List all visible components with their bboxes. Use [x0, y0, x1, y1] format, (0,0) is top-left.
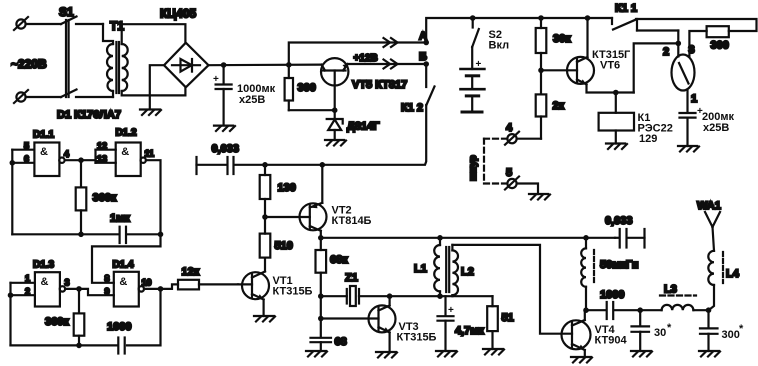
- label 30*: [654, 322, 672, 339]
- quartz Z1: [321, 286, 390, 306]
- svg-text:КТ315Б: КТ315Б: [397, 332, 437, 344]
- transistor VT4 KT904: [562, 310, 591, 357]
- terminal bottom mains: [14, 90, 28, 103]
- capacitor 1mk: [120, 227, 161, 243]
- ground: [699, 351, 720, 357]
- svg-text:2: 2: [25, 287, 30, 297]
- svg-text:12: 12: [97, 141, 107, 151]
- battery GB: [461, 47, 485, 112]
- ground: [325, 140, 346, 146]
- svg-text:D1.4: D1.4: [113, 260, 135, 271]
- capacitor 1000 MV2: [11, 338, 125, 354]
- svg-text:360к: 360к: [45, 316, 69, 328]
- svg-text:КТ315Б: КТ315Б: [273, 286, 313, 298]
- ground: [376, 352, 397, 358]
- zener VD D814G: [327, 110, 343, 140]
- svg-text:&: &: [121, 146, 129, 158]
- node A: [423, 40, 429, 46]
- label 200mk x25V: [702, 111, 734, 134]
- wire: [390, 295, 493, 297]
- label K1 RES22 129: [638, 112, 673, 145]
- svg-text:шнур: шнур: [468, 155, 479, 181]
- wire: [122, 87, 186, 95]
- capacitor 300* trimmer: [700, 310, 718, 351]
- node junction: [470, 15, 476, 21]
- resistor 68k: [316, 238, 327, 296]
- wire pin 3: [689, 31, 706, 57]
- transistor VT6 KT315G: [541, 18, 634, 93]
- wire to terminal 4: [517, 138, 541, 140]
- node junction: [583, 235, 589, 241]
- svg-text:11: 11: [145, 149, 155, 159]
- wire: [320, 296, 322, 337]
- label VT4 KT904: [595, 324, 628, 347]
- node junction: [262, 162, 268, 168]
- svg-text:2к: 2к: [553, 100, 565, 112]
- transistor VT2 KT814B: [265, 165, 327, 238]
- svg-text:1000: 1000: [600, 289, 624, 301]
- svg-text:L3: L3: [664, 284, 677, 296]
- switch S1 pole a: [61, 17, 103, 25]
- transistor VT3 KT315B: [321, 296, 396, 352]
- wire top rail: [426, 18, 612, 43]
- cord dashed: [484, 139, 507, 184]
- node junction: [318, 316, 324, 322]
- svg-text:Б: Б: [419, 51, 427, 63]
- switch S2: [472, 18, 479, 47]
- resistor 51: [487, 296, 498, 349]
- svg-text:&: &: [40, 146, 48, 158]
- svg-text:9: 9: [105, 287, 110, 297]
- capacitor 68: [311, 338, 332, 351]
- svg-text:129: 129: [639, 133, 657, 145]
- svg-text:30: 30: [654, 327, 666, 339]
- resistor 130: [260, 165, 271, 217]
- node junction: [318, 293, 324, 299]
- capacitor 0,033 right: [615, 229, 645, 248]
- gate D1.4: [114, 272, 144, 307]
- svg-text:6: 6: [24, 154, 29, 164]
- node junction: [286, 62, 292, 68]
- svg-text:WA1: WA1: [697, 200, 721, 212]
- node junction: [387, 293, 393, 299]
- transistor VT1 KT315B: [238, 272, 269, 317]
- svg-text:К1 1: К1 1: [615, 3, 637, 15]
- ground: [140, 110, 161, 116]
- resistor 360k second: [74, 289, 85, 346]
- capacitor 1000 output: [586, 302, 640, 319]
- node junction: [706, 307, 712, 313]
- node junction: [221, 62, 227, 68]
- wire supply rail oscillator: [321, 237, 615, 239]
- terminal 4: [505, 132, 519, 145]
- gate D1.3: [11, 272, 66, 306]
- svg-text:&: &: [119, 276, 127, 288]
- svg-text:*: *: [739, 323, 744, 335]
- svg-text:VT5 КТ817: VT5 КТ817: [352, 79, 407, 91]
- relay contact K1.2: [235, 64, 435, 165]
- node junction: [538, 15, 544, 21]
- resistor 360k first: [76, 160, 87, 234]
- svg-text:360к: 360к: [93, 192, 117, 204]
- ground: [214, 126, 235, 131]
- wire pin 2: [637, 19, 678, 57]
- inductor L4: [708, 251, 723, 310]
- svg-text:х25В: х25В: [239, 94, 265, 106]
- svg-text:30к: 30к: [553, 33, 571, 45]
- svg-text:50мкГн: 50мкГн: [600, 259, 638, 271]
- node junction: [676, 41, 682, 47]
- wire: [146, 160, 161, 234]
- svg-text:510: 510: [275, 240, 293, 252]
- inductor L3: [640, 296, 708, 311]
- inductor 50mkGn: [581, 238, 594, 310]
- wire MV1 bottom rail: [12, 233, 118, 235]
- svg-text:+: +: [448, 305, 454, 316]
- resistor 30k: [536, 18, 547, 70]
- svg-text:1: 1: [691, 93, 697, 105]
- capacitor C 1000mk 25V: [213, 65, 232, 125]
- ground: [306, 351, 327, 357]
- label 1000mk x25V: [237, 83, 276, 106]
- svg-text:12к: 12к: [182, 266, 200, 278]
- svg-text:+: +: [213, 74, 219, 85]
- svg-text:13: 13: [97, 154, 107, 164]
- label S2 Vkl: [489, 29, 510, 52]
- wire: [348, 63, 424, 65]
- svg-text:+12В: +12В: [354, 53, 378, 64]
- switch S1 pole b: [61, 90, 113, 98]
- svg-text:х25В: х25В: [703, 122, 729, 134]
- terminal top mains: [14, 17, 28, 30]
- wire: [26, 96, 61, 98]
- label 300*: [722, 323, 745, 341]
- node junction: [158, 286, 164, 292]
- capacitor 30* trimmer: [632, 310, 650, 351]
- node junction: [262, 214, 268, 220]
- node B: [423, 61, 429, 67]
- svg-text:VT6: VT6: [600, 60, 620, 72]
- antenna WA1: [705, 212, 720, 251]
- svg-text:3: 3: [65, 278, 70, 288]
- svg-text:5: 5: [24, 141, 29, 151]
- svg-text:5: 5: [506, 167, 512, 179]
- ground: [571, 357, 592, 363]
- node junction: [10, 160, 16, 166]
- svg-text:3: 3: [689, 44, 695, 56]
- svg-text:L2: L2: [461, 266, 474, 278]
- ground: [631, 351, 652, 357]
- node junction: [320, 162, 326, 168]
- ground battery: [462, 111, 482, 114]
- svg-text:L1: L1: [414, 263, 427, 275]
- svg-text:1: 1: [25, 274, 30, 284]
- transformer T1 core: [116, 42, 119, 93]
- node junction: [8, 292, 14, 298]
- svg-text:S1: S1: [59, 5, 74, 19]
- ground: [529, 194, 550, 200]
- resistor 300 left: [285, 65, 293, 110]
- svg-text:D1.1: D1.1: [33, 130, 55, 141]
- chevron arrow A line: [384, 38, 398, 47]
- wire: [127, 289, 161, 346]
- wire: [150, 65, 164, 109]
- wire: [65, 288, 79, 290]
- svg-text:D1 К176ЛА7: D1 К176ЛА7: [57, 109, 121, 121]
- wire: [9, 283, 11, 346]
- node junction: [637, 307, 643, 313]
- ground: [606, 144, 627, 150]
- svg-text:0,033: 0,033: [212, 143, 240, 155]
- wire: [11, 150, 13, 235]
- svg-text:4,7мк: 4,7мк: [455, 325, 484, 337]
- node junction: [76, 286, 82, 292]
- capacitor 0,033 left: [197, 157, 234, 174]
- node junction: [332, 107, 338, 113]
- wire node A riser: [289, 43, 424, 65]
- node junction: [76, 343, 82, 349]
- label VT1 KT315B: [273, 275, 313, 298]
- resistor 2k: [536, 70, 547, 138]
- relay contact K1.1: [612, 18, 636, 30]
- ground: [483, 349, 504, 355]
- node junction: [613, 90, 619, 96]
- gate D1.2: [96, 143, 146, 177]
- node junction: [538, 68, 544, 74]
- node junction: [583, 307, 589, 313]
- svg-text:Д814Г: Д814Г: [347, 121, 380, 133]
- capacitor 4,7mk: [438, 296, 455, 351]
- relay coil K1 RES22: [599, 93, 634, 144]
- svg-text:300: 300: [298, 82, 316, 94]
- svg-text:68: 68: [335, 336, 347, 348]
- node junction L1 bottom: [437, 293, 443, 299]
- svg-text:4: 4: [64, 149, 69, 159]
- wire pin 1: [686, 90, 688, 113]
- transistor VT5 KT817: [321, 58, 348, 110]
- svg-text:10: 10: [142, 278, 152, 288]
- transformer T1 secondary: [122, 44, 128, 91]
- svg-text:К1 2: К1 2: [401, 102, 423, 114]
- ground: [254, 316, 275, 322]
- node junction: [585, 15, 591, 21]
- node junction: [318, 235, 324, 241]
- inductor L1: [434, 238, 440, 296]
- svg-text:300: 300: [722, 329, 740, 341]
- wire to pin 2: [634, 43, 679, 92]
- gate D1.1: [12, 143, 64, 177]
- wire MV1 to D1.4: [92, 234, 161, 282]
- inductor L2: [452, 245, 458, 296]
- label VT2 KT814B: [332, 205, 372, 228]
- svg-text:130: 130: [278, 182, 296, 194]
- label VT6 KT315G: [592, 49, 631, 72]
- svg-text:КТ904: КТ904: [595, 335, 628, 347]
- svg-text:300: 300: [711, 40, 729, 52]
- svg-text:~220В: ~220В: [11, 57, 47, 71]
- node junction L1 top: [437, 235, 443, 241]
- wire: [636, 19, 757, 31]
- svg-text:L4: L4: [726, 268, 740, 280]
- svg-text:Вкл: Вкл: [489, 40, 510, 52]
- svg-text:0,033: 0,033: [605, 215, 633, 227]
- node junction: [78, 232, 84, 238]
- svg-text:КЦ405: КЦ405: [160, 7, 196, 21]
- svg-text:4: 4: [506, 122, 513, 134]
- svg-text:51: 51: [502, 312, 514, 324]
- svg-text:D1.2: D1.2: [116, 128, 138, 139]
- transformer core L1 L2: [446, 247, 449, 292]
- node junction: [158, 232, 164, 238]
- capacitor 200mk 25V: [680, 106, 704, 146]
- resistor 12k: [161, 280, 239, 290]
- wire L2 to VT4 base: [452, 245, 572, 334]
- label VT3 KT315B: [397, 321, 437, 344]
- wire: [26, 23, 61, 25]
- ground: [678, 146, 699, 152]
- svg-text:68к: 68к: [330, 254, 348, 266]
- svg-text:&: &: [41, 276, 49, 288]
- terminal 5: [505, 177, 519, 190]
- resistor 300 top right: [707, 26, 729, 37]
- ground: [436, 351, 457, 357]
- wire: [122, 24, 186, 44]
- svg-text:D1.3: D1.3: [33, 260, 55, 271]
- svg-text:Z1: Z1: [345, 272, 358, 284]
- svg-text:1мк: 1мк: [110, 213, 130, 225]
- node junction: [78, 157, 84, 163]
- bridge rectifier KTs405: [164, 43, 209, 88]
- wire: [517, 184, 538, 195]
- connector jack XS: [672, 55, 695, 91]
- wire D1.3 out to D1.4 in: [79, 289, 114, 295]
- transformer T1 primary: [107, 44, 113, 91]
- switch S1 link: [66, 20, 69, 97]
- svg-text:*: *: [667, 322, 672, 334]
- wire: [209, 63, 322, 66]
- svg-text:2: 2: [663, 46, 669, 58]
- wire: [289, 109, 335, 111]
- svg-text:8: 8: [105, 274, 110, 284]
- svg-text:КТ814Б: КТ814Б: [332, 215, 372, 227]
- wire: [65, 159, 96, 161]
- wire: [103, 24, 113, 44]
- resistor 510: [260, 217, 271, 272]
- svg-text:1000: 1000: [107, 321, 131, 333]
- chevron arrow B line: [384, 60, 398, 69]
